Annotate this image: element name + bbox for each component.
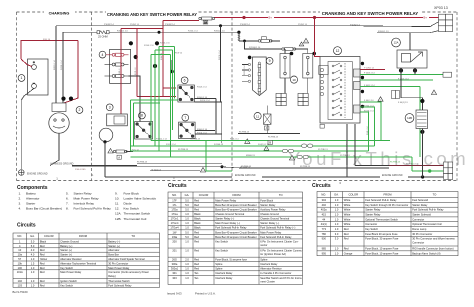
svg-text:Battery (+): Battery (+): [60, 244, 72, 248]
key switch S12: [320, 57, 360, 124]
engine ground run: [105, 176, 232, 178]
alternator connector: [52, 103, 66, 112]
svg-text:Red: Red: [194, 198, 199, 202]
svg-text:5.: 5.: [66, 191, 69, 195]
svg-text:Diode: Diode: [124, 202, 132, 206]
svg-text:Key Switch: Key Switch: [60, 266, 73, 270]
black wire battery negative to engine ground: [21, 88, 34, 169]
svg-text:Black: Black: [194, 217, 201, 221]
svg-text:Spline: Spline: [215, 267, 223, 271]
svg-text:Main Power Relay (–): Main Power Relay (–): [215, 221, 240, 225]
key switch pin box: [354, 82, 361, 90]
svg-text:Starter Relay: Starter Relay: [412, 203, 428, 207]
label A box: [265, 126, 269, 130]
fuse element: [258, 70, 261, 78]
key switch pin box: [354, 105, 361, 113]
svg-text:Relay): Relay): [108, 274, 116, 278]
inline fuse 5A: [258, 39, 272, 42]
svg-text:Red: Red: [40, 244, 45, 248]
svg-text:26G: 26G: [172, 258, 177, 262]
svg-text:304: 304: [322, 198, 327, 202]
caution triangle: [264, 146, 269, 150]
svg-text:1.0: 1.0: [185, 248, 189, 252]
svg-text:Black: Black: [194, 212, 201, 216]
svg-text:Fuse Block, 10 ampere Fuse: Fuse Block, 10 ampere Fuse: [365, 251, 399, 255]
svg-text:17F: 17F: [172, 198, 177, 202]
svg-text:Red: Red: [40, 253, 45, 257]
svg-text:Interlock Relay: Interlock Relay: [215, 276, 233, 280]
connector below solenoid a: [276, 93, 286, 105]
svg-text:1.0: 1.0: [185, 267, 189, 271]
solenoid lead: [284, 78, 286, 93]
starter ground junction: [103, 140, 106, 143]
component 10 loader valve solenoids callout: [290, 76, 297, 83]
green wire key switch acc to connector: [360, 74, 443, 76]
svg-text:101A: 101A: [17, 270, 23, 274]
svg-text:Buss Bar (Circuit Breaker): Buss Bar (Circuit Breaker): [26, 207, 62, 211]
caution triangle: [245, 139, 250, 144]
svg-text:Tan: Tan: [194, 271, 199, 275]
section title CRANKING AND KEY SWITCH POWER RELAY (center): [106, 11, 198, 17]
svg-text:7.: 7.: [66, 202, 69, 206]
svg-text:Components: Components: [17, 185, 48, 191]
callout dot: [413, 68, 417, 72]
svg-text:Fuse Block: Fuse Block: [260, 198, 274, 202]
svg-text:Red: Red: [194, 262, 199, 266]
svg-text:Starter Relay: Starter Relay: [365, 208, 381, 212]
coil lead to ground: [421, 129, 423, 178]
engine ground run right: [262, 176, 380, 178]
fuse tap box: [262, 37, 267, 40]
junction on black bus: [219, 24, 222, 27]
maroon wire to right connector: [389, 165, 444, 167]
svg-text:5.0: 5.0: [185, 208, 189, 212]
svg-text:Red: Red: [194, 239, 199, 243]
small connector boxes: [392, 91, 400, 99]
red wire key switch battery terminal: [360, 69, 385, 71]
svg-text:ment Cluster: ment Cluster: [260, 279, 275, 283]
svg-text:1.0: 1.0: [335, 217, 339, 221]
green wire vertical: [158, 47, 160, 152]
green wire: [360, 79, 433, 81]
svg-text:6 Pin On Instrument Cluster Co: 6 Pin On Instrument Cluster Con-: [260, 239, 298, 243]
key switch bottom tap box: [320, 124, 324, 128]
svg-text:nector: nector: [260, 243, 267, 247]
svg-text:Fuse Block 20 ampere Fuse: Fuse Block 20 ampere Fuse: [365, 232, 398, 236]
red wire stub to inline connector: [163, 20, 199, 22]
black bus wire P10N2 14: [56, 25, 354, 27]
component 7 interlock relay callout: [182, 114, 189, 121]
junction to fuse feed: [237, 31, 240, 34]
red B+ bus wire: [274, 17, 423, 19]
svg-text:5.0: 5.0: [31, 239, 35, 243]
red wire to relay coil: [163, 87, 176, 89]
svg-text:Fuel Solenoid Pull-In Relay (–: Fuel Solenoid Pull-In Relay (–): [260, 226, 295, 230]
svg-text:Black: Black: [194, 226, 201, 230]
svg-text:Buss Bar: Buss Bar: [108, 253, 119, 257]
relay K8 fuel solenoid pull-in: [135, 122, 153, 140]
svg-text:Key Switch: Key Switch: [215, 239, 228, 243]
thermostart switch feed: [409, 33, 411, 50]
component 3 starter callout: [106, 104, 113, 111]
svg-text:Red: Red: [344, 232, 349, 236]
black wire lower run extension: [222, 167, 389, 168]
green bundle wire 4: [130, 156, 412, 158]
harness callout dot: [129, 41, 133, 45]
drop to solenoid 2: [307, 49, 309, 54]
svg-text:10b: 10b: [18, 261, 23, 265]
svg-text:780: 780: [322, 232, 327, 236]
svg-text:GA.: GA.: [30, 234, 35, 238]
svg-text:103: 103: [18, 283, 23, 287]
svg-text:1.0: 1.0: [335, 212, 339, 216]
svg-text:100: 100: [18, 266, 23, 270]
red B+ bus wire to connector: [429, 17, 439, 19]
svg-text:TO: TO: [279, 193, 283, 197]
svg-text:Red: Red: [40, 283, 45, 287]
svg-text:300a1: 300a1: [171, 267, 179, 271]
svg-text:Main Power Relay: Main Power Relay: [260, 230, 282, 234]
diode lead up: [266, 106, 268, 115]
svg-text:Tan: Tan: [194, 276, 199, 280]
component 6 main power relay callout: [181, 77, 188, 84]
svg-text:Spline: Spline: [215, 262, 223, 266]
svg-text:1.0: 1.0: [185, 262, 189, 266]
svg-text:1.: 1.: [19, 191, 22, 195]
svg-text:Red: Red: [344, 237, 349, 241]
svg-text:1.0: 1.0: [31, 283, 35, 287]
svg-text:1.0: 1.0: [335, 203, 339, 207]
svg-text:2.: 2.: [19, 196, 22, 200]
wire to resistor: [63, 31, 97, 33]
key switch left connector box: [319, 66, 328, 75]
junction resistor wire: [158, 31, 161, 34]
schematic dashed border frame: [17, 12, 458, 181]
svg-text:Red: Red: [344, 246, 349, 250]
svg-text:Buss Bar 40 ampere Circuit Bre: Buss Bar 40 ampere Circuit Breaker: [215, 230, 257, 234]
vertical link: [215, 99, 217, 134]
black wire lower run 2: [72, 166, 222, 168]
black wire bus to alternator connector: [55, 26, 57, 103]
svg-text:1.0: 1.0: [185, 226, 189, 230]
svg-text:402a: 402a: [321, 208, 327, 212]
caution triangle: [303, 38, 308, 43]
svg-text:Fuel Solenoid Pull-In Relay: Fuel Solenoid Pull-In Relay: [74, 207, 112, 211]
fuse block stub: [242, 80, 248, 82]
svg-text:Buss Bar 40 ampere Circuit Bre: Buss Bar 40 ampere Circuit Breaker: [215, 203, 257, 207]
bend into connector pin 3: [430, 31, 439, 33]
svg-text:1.0: 1.0: [335, 222, 339, 226]
svg-text:Spline: Spline: [260, 258, 268, 262]
svg-text:Red: Red: [40, 270, 45, 274]
svg-text:Red: Red: [40, 279, 45, 283]
fuse output stub: [126, 151, 133, 153]
svg-text:1.0: 1.0: [185, 239, 189, 243]
svg-text:Auxiliary Power Relay: Auxiliary Power Relay: [260, 208, 286, 212]
svg-text:10.: 10.: [115, 196, 119, 200]
svg-text:9.: 9.: [115, 191, 118, 195]
black wire key switch drop: [354, 124, 356, 166]
svg-text:LU handle 4 Pin Connector: LU handle 4 Pin Connector: [260, 271, 291, 275]
svg-text:Interlock Relay: Interlock Relay: [260, 262, 278, 266]
green wire vertical: [174, 47, 176, 99]
svg-text:2.0: 2.0: [185, 258, 189, 262]
svg-text:Red: Red: [194, 203, 199, 207]
green wire vertical: [172, 50, 174, 130]
svg-text:Bul 9-75160: Bul 9-75160: [13, 290, 29, 294]
black wire lower right: [377, 32, 430, 34]
svg-text:FROM: FROM: [384, 193, 393, 197]
svg-text:Red: Red: [194, 267, 199, 271]
caution triangle: [200, 168, 205, 173]
svg-text:COLOR: COLOR: [44, 234, 54, 238]
svg-text:Key Switch through 30 Pin Conn: Key Switch through 30 Pin Connector: [365, 203, 408, 207]
green bundle wire 3: [130, 150, 368, 152]
svg-text:Red: Red: [40, 266, 45, 270]
resistor 25 OHM: [97, 31, 109, 34]
svg-text:Red: Red: [194, 208, 199, 212]
wire toward connector: [355, 165, 389, 167]
svg-text:Fuel Solenoid Pull-In Relay: Fuel Solenoid Pull-In Relay: [412, 208, 444, 212]
svg-text:Buss Bar 40 ampere Circuit Bre: Buss Bar 40 ampere Circuit Breaker: [215, 235, 257, 239]
svg-text:1.0: 1.0: [185, 217, 189, 221]
red wire battery positive: [21, 59, 32, 67]
junction on ground run: [421, 175, 424, 178]
svg-text:3.0: 3.0: [335, 232, 339, 236]
svg-text:GA.: GA.: [185, 193, 190, 197]
harness callout dot: [69, 97, 73, 101]
svg-text:Connector (Curtis accessory Po: Connector (Curtis accessory Power: [108, 270, 149, 274]
inline connector pair: [297, 155, 308, 158]
starter motor: [99, 128, 113, 142]
component 11 diode callout: [254, 113, 261, 120]
svg-text:Backup Alarm Switch (If): Backup Alarm Switch (If): [412, 251, 440, 255]
svg-text:301: 301: [172, 271, 177, 275]
switch to coil wire: [401, 68, 422, 110]
svg-text:Chassis Ground: Chassis Ground: [260, 212, 279, 216]
harness callout dot: [153, 64, 157, 68]
green wire nested bend 1: [360, 102, 381, 140]
svg-text:1.5: 1.5: [31, 261, 35, 265]
svg-text:5.0: 5.0: [185, 203, 189, 207]
key switch pin box: [354, 69, 361, 77]
svg-text:Buss Bar 40 ampere Circuit Bre: Buss Bar 40 ampere Circuit Breaker: [215, 208, 257, 212]
svg-text:Main Power Relay: Main Power Relay: [74, 196, 100, 200]
loader valve solenoid L10a: [280, 54, 290, 79]
svg-text:4.0: 4.0: [31, 253, 35, 257]
thermostart switch S12A: [397, 50, 427, 68]
starter M3 solenoid: [107, 114, 128, 126]
svg-text:Ignition Switch: Ignition Switch: [60, 279, 77, 283]
svg-text:Issued 9-03: Issued 9-03: [167, 292, 182, 296]
black stub: [171, 60, 173, 72]
relay K6 main power: [178, 85, 195, 102]
green wire to relay: [130, 99, 178, 101]
svg-text:Alternator: Alternator: [26, 196, 39, 200]
svg-text:Orange: Orange: [344, 251, 353, 255]
svg-text:11.: 11.: [115, 202, 119, 206]
fuse element row 1: [105, 53, 129, 56]
svg-text:5.0: 5.0: [185, 230, 189, 234]
svg-text:Starter Solenoid: Starter Solenoid: [412, 212, 431, 216]
svg-text:tor (Ignition Power Ad): tor (Ignition Power Ad): [260, 252, 286, 256]
svg-text:Alternator Resistor: Alternator Resistor: [60, 257, 82, 261]
section title CRANKING AND KEY SWITCH POWER RELAY (right): [320, 11, 420, 17]
svg-text:Chassis Ground Terminal: Chassis Ground Terminal: [260, 217, 289, 221]
svg-text:Fuel Solenoid Pull-In Relay: Fuel Solenoid Pull-In Relay: [365, 198, 397, 202]
key switch terminal dot: [361, 105, 364, 108]
svg-text:Starter: Starter: [26, 202, 35, 206]
svg-text:Alternator Resistor: Alternator Resistor: [260, 267, 282, 271]
fuse element row 3: [105, 74, 129, 77]
svg-text:Fuse Block, 30 ampere Fuse: Fuse Block, 30 ampere Fuse: [365, 237, 399, 241]
svg-text:12B.: 12B.: [115, 217, 122, 221]
fuse element: [258, 86, 261, 94]
svg-text:402: 402: [322, 203, 327, 207]
caution triangle: [378, 97, 383, 102]
svg-text:Red: Red: [194, 248, 199, 252]
connector X1 right edge: [439, 14, 453, 31]
svg-text:Loader Valve Solenoids: Loader Valve Solenoids: [124, 196, 157, 200]
caution triangle: [431, 90, 436, 95]
black wire resistor to alternator connector: [62, 32, 64, 103]
green wire nested bend 3: [360, 112, 368, 151]
svg-text:Key Switch: Key Switch: [60, 283, 73, 287]
svg-text:773: 773: [322, 227, 327, 231]
svg-text:White: White: [344, 217, 351, 221]
svg-text:1.0: 1.0: [185, 271, 189, 275]
svg-text:Optional Thermostart Switch: Optional Thermostart Switch: [365, 217, 398, 221]
svg-text:17Gn1: 17Gn1: [171, 217, 179, 221]
svg-text:Starter Relay: Starter Relay: [365, 212, 381, 216]
svg-text:Alternator Field Spade Termina: Alternator Field Spade Terminal: [108, 257, 145, 261]
thermostart coil E12B: [416, 110, 428, 129]
green bridge wire top: [159, 46, 175, 48]
svg-text:Fuel Solenoid: Fuel Solenoid: [412, 198, 428, 202]
red wire to relay feed: [136, 29, 138, 97]
component 4 buss bar callout: [99, 51, 106, 58]
svg-text:1.0: 1.0: [185, 276, 189, 280]
diode lead down: [266, 124, 268, 133]
red wire R10 14 battery to alternator: [21, 41, 78, 59]
svg-text:FROM: FROM: [79, 234, 88, 238]
fuse element row 2: [105, 63, 129, 66]
svg-text:Fuel Solenoid Pull-In Relay: Fuel Solenoid Pull-In Relay: [215, 226, 247, 230]
green bundle wire 1: [151, 139, 390, 141]
junction at bend: [243, 40, 246, 43]
engine ground G1: [19, 170, 25, 176]
green bundle wire 2: [130, 145, 374, 147]
svg-text:Fuse Block, 5) ampere fuse: Fuse Block, 5) ampere fuse: [215, 258, 247, 262]
alternator ground wire: [50, 133, 59, 165]
label A box: [117, 155, 121, 159]
svg-text:4.: 4.: [19, 207, 22, 211]
fusible link drop: [238, 32, 240, 41]
svg-text:Fuse Block: Fuse Block: [124, 191, 140, 195]
svg-text:Key Switch: Key Switch: [124, 207, 140, 211]
relay K7 interlock: [179, 122, 196, 139]
svg-text:Key Switch: Key Switch: [365, 227, 378, 231]
fuse block stub: [242, 64, 248, 66]
svg-text:Chassis Ground Terminal: Chassis Ground Terminal: [215, 212, 244, 216]
bend into connector pin 2: [430, 22, 439, 27]
svg-text:1.0: 1.0: [335, 227, 339, 231]
inline fuse 20A: [282, 48, 296, 51]
svg-text:Red: Red: [194, 258, 199, 262]
svg-text:102: 102: [18, 279, 23, 283]
svg-text:TO: TO: [131, 234, 135, 238]
svg-text:White: White: [344, 208, 351, 212]
green vertical drop right: [419, 87, 421, 151]
svg-text:1.0: 1.0: [335, 208, 339, 212]
svg-text:Dome Lamp: Dome Lamp: [412, 227, 427, 231]
svg-text:1W: 1W: [173, 230, 177, 234]
component 12 key switch callout: [334, 47, 342, 55]
caution triangle: [299, 42, 304, 46]
svg-text:Starter (+): Starter (+): [60, 248, 72, 252]
wire from fuse 2: [295, 48, 308, 50]
red wire down to alternator B+: [64, 41, 78, 103]
svg-text:Printed in U.S.A.: Printed in U.S.A.: [195, 292, 216, 296]
svg-text:200: 200: [172, 239, 177, 243]
green wire link: [133, 102, 160, 104]
relay 7 output wire 2: [195, 133, 222, 135]
svg-text:30 Pin Connector: 30 Pin Connector: [108, 261, 128, 265]
svg-text:NO.: NO.: [17, 234, 22, 238]
svg-text:Red: Red: [344, 227, 349, 231]
svg-text:White: White: [344, 222, 351, 226]
black wire lower run 3: [150, 170, 200, 172]
svg-text:Black: Black: [194, 221, 201, 225]
callout dot: [248, 56, 252, 60]
component 1 battery callout: [18, 75, 25, 82]
callout dot: [399, 68, 403, 72]
svg-text:6.: 6.: [66, 196, 69, 200]
black wire lower run: [137, 162, 222, 164]
svg-text:12A.: 12A.: [115, 212, 122, 216]
svg-text:FROM: FROM: [233, 193, 242, 197]
green wire to right connector: [412, 170, 444, 172]
connector tap 16: [203, 20, 208, 24]
svg-text:Seat Bar Switch and 8 Pin for: Seat Bar Switch and 8 Pin for Instru-: [260, 276, 302, 280]
svg-text:1.0: 1.0: [31, 270, 35, 274]
svg-text:Fuel Solenoid Pull-In Relay: Fuel Solenoid Pull-In Relay: [260, 235, 292, 239]
green bridge wire: [155, 49, 173, 51]
green wire nested bend 2: [360, 107, 374, 146]
red wire to main power relay: [137, 96, 176, 98]
svg-text:Thermostat Switch: Thermostat Switch: [108, 279, 130, 283]
svg-text:Main Power Relay: Main Power Relay: [60, 270, 82, 274]
svg-text:TO: TO: [433, 193, 437, 197]
wire to second fuse: [245, 41, 283, 49]
svg-text:Battery: Battery: [26, 191, 36, 195]
red wire drop to relay 6: [162, 21, 164, 97]
green link: [419, 151, 421, 157]
svg-text:17L: 17L: [172, 203, 177, 207]
green wire vertical at relay 8: [129, 100, 131, 151]
alternator G2: [49, 113, 69, 133]
left circuits table: [13, 233, 160, 287]
callout dot: [420, 99, 424, 103]
green drop to connector run: [411, 157, 413, 171]
connector X2 right edge bottom: [444, 162, 453, 179]
svg-text:8.: 8.: [66, 207, 69, 211]
component 9 fuse block callout: [266, 57, 273, 64]
svg-text:1.0: 1.0: [335, 198, 339, 202]
harness callout dot: [61, 97, 65, 101]
inline connector pair: [283, 149, 294, 152]
svg-text:300a: 300a: [172, 262, 178, 266]
